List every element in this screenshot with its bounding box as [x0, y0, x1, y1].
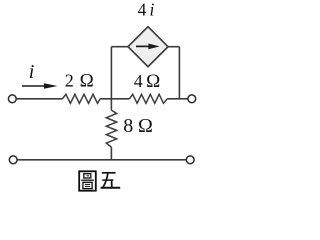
current arrow i [22, 83, 58, 88]
wire bottom [17, 159, 186, 161]
resistor 8ohm vertical [106, 110, 116, 147]
svg-text:i: i [29, 61, 35, 83]
caption glyph WU (five) [101, 173, 121, 188]
svg-text:Ω: Ω [138, 115, 153, 137]
wire 8ohm down to bottom wire [110, 147, 112, 160]
terminal top-right [188, 95, 196, 103]
resistor 4ohm [129, 94, 167, 103]
terminal top-left [8, 95, 16, 103]
svg-text:2: 2 [65, 71, 74, 91]
svg-text:8: 8 [123, 115, 133, 137]
wire top-left stub from dependent source to left vertical [111, 46, 128, 48]
svg-text:Ω: Ω [80, 71, 94, 92]
svg-text:Ω: Ω [146, 71, 160, 92]
caption glyph TU (figure) [79, 171, 96, 190]
dependent current source 4i (diamond) [128, 27, 168, 67]
svg-text:4: 4 [138, 0, 147, 19]
svg-text:4: 4 [134, 71, 143, 91]
terminal bottom-right [186, 156, 194, 164]
resistor 2ohm [62, 94, 100, 103]
wire between 2ohm and 4ohm through node A [100, 98, 129, 100]
svg-text:i: i [150, 0, 155, 19]
wire right segment to terminal [167, 98, 188, 100]
terminal bottom-left [9, 156, 17, 164]
wire top-right stub from dependent source to right vertical [168, 46, 179, 48]
wire right vertical from source down to right node [178, 47, 180, 99]
wire left vertical from source down to node A [110, 47, 112, 99]
wire node A down to 8ohm [110, 99, 112, 110]
wire main left segment [16, 98, 62, 100]
